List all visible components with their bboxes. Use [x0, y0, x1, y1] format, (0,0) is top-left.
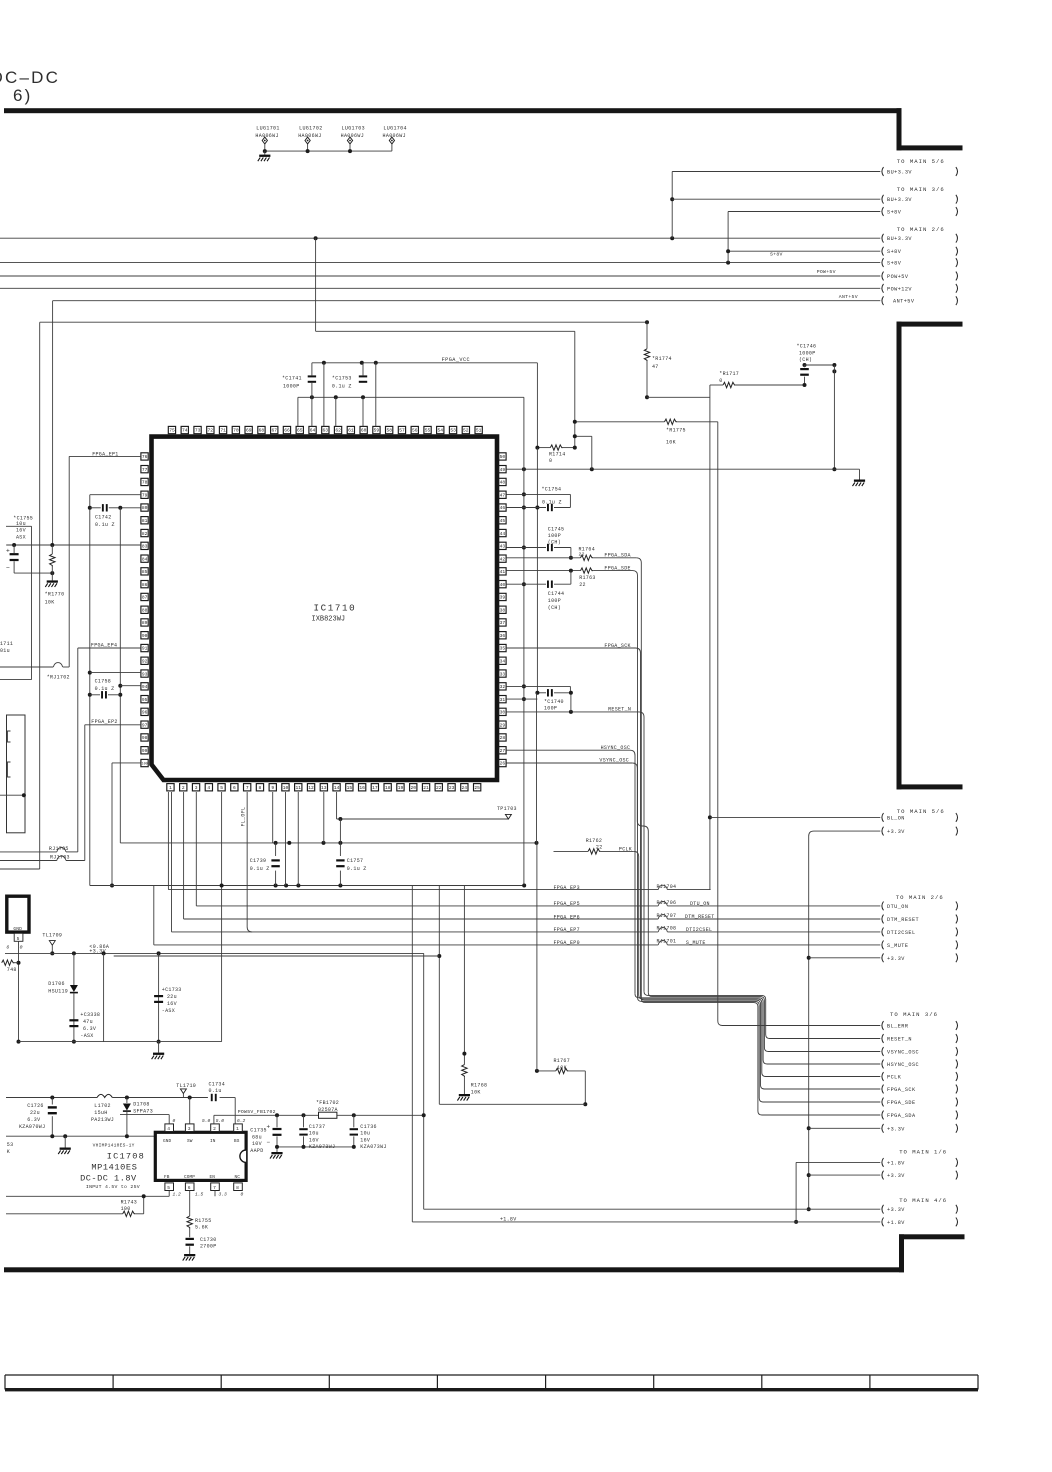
svg-text:TO MAIN 5/6: TO MAIN 5/6 — [897, 158, 945, 165]
connector S+8V to MAIN 2/6 b — [882, 258, 884, 267]
ground lug bus — [264, 151, 266, 155]
connector BU+3.3V to MAIN 3/6 — [882, 195, 884, 204]
svg-text:FPGA_EP6: FPGA_EP6 — [554, 914, 580, 920]
svg-text:-ASX: -ASX — [80, 1033, 93, 1039]
svg-text:748: 748 — [7, 967, 17, 973]
svg-text:+3.3V: +3.3V — [887, 829, 905, 835]
svg-text:35: 35 — [500, 646, 506, 652]
svg-text:11: 11 — [295, 785, 301, 791]
svg-text:ASX: ASX — [16, 535, 26, 541]
wire pin4 GND link — [120, 1114, 169, 1116]
connector FPGA_SDA out — [882, 1111, 884, 1120]
svg-text:RESET_N: RESET_N — [887, 1037, 912, 1043]
IC1710 bottom pins 1-25 — [167, 784, 174, 791]
wire FB net — [168, 1191, 170, 1197]
connector BU+3.3V to MAIN 2/6 — [882, 234, 884, 243]
svg-text:33: 33 — [500, 671, 506, 677]
svg-text:9: 9 — [271, 785, 274, 791]
svg-text:IN: IN — [210, 1139, 216, 1144]
wire C1726 top stub — [51, 1098, 53, 1105]
svg-text:49: 49 — [500, 467, 506, 473]
connector PCLK out — [882, 1072, 884, 1081]
wire pin31 stub — [506, 698, 537, 700]
svg-text:*C1754: *C1754 — [542, 486, 562, 492]
svg-text:+1.8V: +1.8V — [887, 1220, 905, 1226]
svg-text:(CH): (CH) — [548, 605, 561, 611]
svg-text:81: 81 — [142, 518, 148, 524]
svg-text:EN: EN — [210, 1175, 216, 1180]
svg-text:ANT+5V: ANT+5V — [839, 294, 858, 300]
wire BU+3.3V bus — [0, 237, 880, 239]
svg-text:D1708: D1708 — [133, 1102, 150, 1108]
svg-text:R1768: R1768 — [471, 1082, 488, 1088]
svg-text:R1755: R1755 — [195, 1218, 212, 1224]
wire +3.3V 2/6 stub — [809, 957, 881, 959]
svg-text:29: 29 — [500, 722, 506, 728]
svg-text:(CH): (CH) — [799, 357, 812, 363]
wire R1775 to BL_ERR drop — [717, 422, 719, 1021]
svg-text:POW+12V: POW+12V — [887, 286, 912, 292]
svg-text:100: 100 — [142, 763, 148, 767]
svg-text:10K: 10K — [666, 439, 676, 445]
svg-text:21: 21 — [423, 785, 429, 791]
svg-text:22: 22 — [596, 844, 603, 850]
connector BL_ERR — [882, 1021, 884, 1030]
svg-text:FPGA_SDA: FPGA_SDA — [887, 1113, 916, 1119]
svg-text:63: 63 — [323, 428, 329, 434]
svg-text:46: 46 — [500, 505, 506, 511]
svg-text:69: 69 — [246, 428, 252, 434]
svg-text:98: 98 — [142, 735, 148, 741]
wire cap bottoms row W4 — [277, 1146, 354, 1148]
svg-text:0.1u: 0.1u — [209, 1088, 222, 1094]
pin 5 of partial IC — [14, 933, 23, 941]
ground pin49 net — [859, 469, 861, 479]
wire lug common bus — [265, 150, 392, 152]
svg-text:DTM_RESET: DTM_RESET — [887, 917, 919, 923]
svg-text:POW+5V: POW+5V — [887, 274, 909, 280]
svg-text:7: 7 — [213, 1185, 216, 1191]
svg-text:5.0: 5.0 — [202, 1118, 211, 1124]
svg-text:36: 36 — [500, 633, 506, 639]
wire pin83 node C1755/R1770 — [6, 544, 141, 546]
svg-text:25: 25 — [474, 785, 480, 791]
svg-text:C1758: C1758 — [95, 679, 112, 685]
svg-text:15uH: 15uH — [94, 1110, 107, 1116]
svg-text:*C1741: *C1741 — [282, 375, 302, 381]
svg-text:IC1708: IC1708 — [107, 1152, 145, 1162]
svg-text:42: 42 — [500, 556, 506, 562]
svg-text:FL_OFL: FL_OFL — [241, 807, 247, 827]
svg-text:R1714: R1714 — [549, 452, 566, 458]
svg-text:0: 0 — [719, 378, 722, 384]
ground W2 — [64, 1136, 66, 1147]
svg-text:5: 5 — [167, 1185, 170, 1191]
wire under-IC bus B — [90, 885, 524, 887]
svg-text:3: 3 — [188, 1126, 191, 1132]
svg-text:90: 90 — [142, 633, 148, 639]
svg-text:51: 51 — [476, 428, 482, 434]
wire gnd collector row — [19, 1041, 222, 1043]
svg-text:*C1740: *C1740 — [544, 699, 564, 705]
svg-text:93: 93 — [142, 671, 148, 677]
svg-text:*C1753: *C1753 — [332, 375, 352, 381]
svg-text:20: 20 — [410, 785, 416, 791]
svg-text:61: 61 — [348, 428, 354, 434]
svg-text:4: 4 — [167, 1126, 170, 1132]
svg-text:BU+3.3V: BU+3.3V — [887, 236, 912, 242]
svg-text:82: 82 — [142, 531, 148, 537]
svg-text:0.1u Z: 0.1u Z — [250, 866, 270, 872]
svg-text:6: 6 — [188, 1185, 191, 1191]
svg-text:RJ1701: RJ1701 — [657, 938, 677, 944]
svg-text:−: − — [6, 565, 10, 572]
svg-text:HA006WJ: HA006WJ — [341, 133, 364, 139]
svg-text:18: 18 — [385, 785, 391, 791]
svg-text:86: 86 — [142, 582, 148, 588]
connector FPGA_SCK out — [882, 1085, 884, 1094]
svg-text:8: 8 — [259, 785, 262, 791]
svg-text:FPGA_SCK: FPGA_SCK — [887, 1087, 916, 1093]
svg-text:19: 19 — [398, 785, 404, 791]
svg-text:AAPD: AAPD — [250, 1148, 263, 1154]
svg-text:91: 91 — [142, 646, 148, 652]
svg-text:L1702: L1702 — [94, 1103, 111, 1109]
wire pin11 drop — [297, 792, 299, 886]
svg-text:R1767: R1767 — [554, 1058, 571, 1064]
wire R1774 feed line — [40, 321, 647, 323]
svg-text:HSYNC_OSC: HSYNC_OSC — [887, 1062, 919, 1068]
svg-text:DC–DC: DC–DC — [0, 68, 60, 87]
connector HSYNC_OSC out — [882, 1060, 884, 1069]
svg-text:27: 27 — [500, 748, 506, 754]
svg-text:50: 50 — [500, 454, 506, 460]
svg-text:HA006WJ: HA006WJ — [383, 133, 406, 139]
svg-text:MP1410ES: MP1410ES — [91, 1162, 137, 1172]
wire left drop to RJ area — [39, 322, 41, 869]
svg-text:45: 45 — [500, 518, 506, 524]
svg-text:SFPA73: SFPA73 — [133, 1109, 153, 1115]
svg-text:100P: 100P — [544, 705, 557, 711]
wire return riser — [438, 886, 440, 1105]
svg-text:41: 41 — [500, 569, 506, 575]
svg-text:10: 10 — [283, 785, 289, 791]
svg-text:10K: 10K — [471, 1089, 481, 1095]
svg-text:54: 54 — [438, 428, 444, 434]
svg-text:0.1u Z: 0.1u Z — [95, 522, 115, 528]
wire R1717 to BL_ON drop — [709, 385, 711, 890]
svg-text:1711: 1711 — [0, 641, 13, 647]
IC1708 top pin 2 — [211, 1124, 220, 1132]
wire BL_ON — [710, 816, 880, 818]
svg-text:68u: 68u — [252, 1134, 262, 1140]
svg-text:TO MAIN 1/6: TO MAIN 1/6 — [899, 1148, 947, 1155]
svg-text:10K: 10K — [45, 600, 55, 606]
wire +3.3V row to MAIN 4/6 — [424, 1208, 881, 1210]
svg-text:31: 31 — [500, 697, 506, 703]
wire W2 gnd row — [6, 1135, 155, 1137]
svg-text:1.5: 1.5 — [195, 1192, 204, 1198]
wire under-IC bus A — [120, 842, 536, 844]
svg-text:S_MUTE: S_MUTE — [887, 943, 908, 949]
wire pin5 stub — [18, 941, 20, 1041]
svg-text:5: 5 — [220, 785, 223, 791]
svg-text:+3.3V: +3.3V — [887, 956, 905, 962]
wire R1774 bottom link — [647, 396, 710, 398]
svg-text:R1763: R1763 — [579, 575, 596, 581]
svg-text:94: 94 — [142, 684, 148, 690]
connector RESET_N out — [882, 1034, 884, 1043]
ground R1770 — [51, 573, 53, 580]
svg-text:6: 6 — [233, 785, 236, 791]
svg-text:C1726: C1726 — [27, 1103, 44, 1109]
wire return row — [439, 1103, 585, 1105]
connector +3.3V to MAIN 2/6 — [882, 953, 884, 962]
svg-text:LUG1702: LUG1702 — [299, 126, 322, 132]
wire pin5 drop — [221, 792, 223, 1042]
wire BU+3.3V branch up to MAIN5/6 and 3/6 — [671, 172, 673, 239]
svg-text:BL_ERR: BL_ERR — [887, 1024, 908, 1030]
svg-text:BL_ON: BL_ON — [887, 815, 905, 821]
svg-text:84: 84 — [142, 556, 148, 562]
svg-text:6.3V: 6.3V — [83, 1026, 96, 1032]
wire into partial box — [0, 794, 24, 796]
wire drop C1746 to pin49 net — [833, 365, 835, 469]
svg-text:88: 88 — [142, 607, 148, 613]
svg-text:12: 12 — [308, 785, 314, 791]
svg-text:60: 60 — [361, 428, 367, 434]
wire S+8V branch to MAIN3/6 — [728, 250, 880, 252]
connector FPGA_SDE out — [882, 1098, 884, 1107]
wire gnd vertical down to bus B — [523, 884, 525, 887]
wire pin10 drop — [284, 792, 286, 886]
svg-text:6.2: 6.2 — [237, 1118, 246, 1124]
svg-text:C1744: C1744 — [548, 591, 565, 597]
IC1708 MP1410ES body — [155, 1132, 246, 1180]
svg-text:40: 40 — [500, 582, 506, 588]
svg-text:TL1709: TL1709 — [42, 933, 62, 939]
wire ANT+5V drop to C1755 node — [52, 301, 54, 545]
svg-text:TO MAIN 2/6: TO MAIN 2/6 — [897, 226, 945, 233]
svg-text:ANT+5V: ANT+5V — [893, 299, 915, 305]
connector +3.3V to MAIN 4/6 — [882, 1205, 884, 1214]
connector DTM_RESET — [882, 915, 884, 924]
svg-text:53: 53 — [450, 428, 456, 434]
svg-text:INPUT 4.5V to 25V: INPUT 4.5V to 25V — [86, 1184, 140, 1190]
svg-text:52: 52 — [463, 428, 469, 434]
svg-text:RJ1708: RJ1708 — [657, 925, 677, 931]
svg-text:8: 8 — [236, 1185, 239, 1191]
GND partial IC box left edge — [7, 896, 29, 932]
wire pin100 route under IC — [112, 762, 141, 764]
resistor R1748 partial — [2, 960, 15, 965]
svg-text:34: 34 — [500, 659, 506, 665]
wire FL_OFL pull vertical — [536, 843, 538, 1071]
svg-text:95: 95 — [142, 697, 148, 703]
svg-text:FPGA_EP4: FPGA_EP4 — [91, 642, 117, 648]
svg-text:58: 58 — [386, 428, 392, 434]
svg-text:16V: 16V — [167, 1001, 177, 1007]
connector S+8V to MAIN 3/6 — [882, 207, 884, 216]
wire SW node W1 — [6, 1097, 97, 1099]
svg-text:37: 37 — [500, 620, 506, 626]
svg-text:GND: GND — [163, 1139, 171, 1144]
svg-text:13: 13 — [321, 785, 327, 791]
svg-text:HSU119: HSU119 — [48, 988, 68, 994]
wire +3.3V riser from rail — [423, 953, 425, 1209]
wire C1746 top link — [805, 364, 835, 366]
svg-text:BU+3.3V: BU+3.3V — [887, 170, 912, 176]
svg-text:80: 80 — [142, 505, 148, 511]
svg-text:5.0: 5.0 — [216, 1118, 225, 1124]
svg-text:DC-DC 1.8V: DC-DC 1.8V — [80, 1174, 137, 1184]
svg-text:+: + — [6, 548, 10, 555]
wire pin14 TP1703 branch — [336, 792, 338, 819]
svg-text:HA006WJ: HA006WJ — [298, 133, 321, 139]
wire R1767 to return — [584, 1071, 586, 1104]
wire secondary rail — [114, 955, 440, 957]
junction dots pin46 pin31 rows — [535, 506, 539, 510]
svg-text:64: 64 — [310, 428, 316, 434]
wire vcc vertical down to bus A — [536, 693, 538, 843]
svg-text:0: 0 — [549, 458, 552, 464]
wire mid riser — [103, 953, 105, 1041]
svg-text:43: 43 — [500, 544, 506, 550]
svg-text:0.1u Z: 0.1u Z — [332, 383, 352, 389]
svg-text:100P: 100P — [548, 533, 561, 539]
svg-text:6): 6) — [13, 86, 33, 105]
svg-text:*R1775: *R1775 — [666, 428, 686, 434]
svg-text:COMP: COMP — [184, 1175, 195, 1180]
svg-text:96: 96 — [142, 710, 148, 716]
svg-text:SW: SW — [187, 1139, 193, 1144]
wire S+8V stub MAIN3/6 — [728, 211, 880, 213]
wire BU+3.3V branch down-over to FPGA_VCC area — [315, 238, 317, 331]
svg-text:66: 66 — [284, 428, 290, 434]
svg-text:POW+5V: POW+5V — [817, 269, 836, 275]
svg-text:100: 100 — [121, 1206, 131, 1212]
svg-text:85: 85 — [142, 569, 148, 575]
svg-text:75: 75 — [169, 428, 175, 434]
wire gnd rail above IC — [298, 396, 524, 398]
svg-text:*C1746: *C1746 — [797, 344, 817, 350]
wire left loop — [0, 679, 32, 681]
svg-text:D1706: D1706 — [48, 981, 65, 987]
svg-text:R1762: R1762 — [586, 838, 603, 844]
svg-text:+3.3V: +3.3V — [887, 1173, 905, 1179]
svg-text:71: 71 — [220, 428, 226, 434]
IC1710 top pins 75-51 — [168, 426, 175, 433]
svg-text:44: 44 — [500, 531, 506, 537]
svg-text:15: 15 — [347, 785, 353, 791]
svg-text:C1757: C1757 — [347, 858, 364, 864]
svg-text:83: 83 — [142, 544, 148, 550]
ground C1730 — [184, 1254, 195, 1256]
connector DTI2CSEL — [882, 928, 884, 937]
svg-text:1: 1 — [236, 1126, 239, 1132]
svg-text:3: 3 — [195, 785, 198, 791]
svg-text:16V: 16V — [16, 528, 26, 534]
svg-text:TP1703: TP1703 — [497, 806, 517, 812]
svg-text:FPGA_EP2: FPGA_EP2 — [91, 719, 117, 725]
svg-text:1.2: 1.2 — [173, 1192, 182, 1198]
svg-text:*R1770: *R1770 — [45, 592, 65, 598]
connector DTU_ON — [882, 902, 884, 911]
svg-text:KZA073WJ: KZA073WJ — [360, 1144, 386, 1150]
svg-text:6.3V: 6.3V — [27, 1117, 40, 1123]
svg-text:10u: 10u — [309, 1131, 319, 1137]
svg-text:10V: 10V — [252, 1141, 262, 1147]
wire pin3 SW stub — [189, 1098, 191, 1124]
connector VSYNC_OSC out — [882, 1047, 884, 1056]
svg-text:C1745: C1745 — [548, 527, 565, 533]
svg-text:*R1717: *R1717 — [719, 371, 739, 377]
svg-text:22u: 22u — [30, 1110, 40, 1116]
svg-text:16: 16 — [359, 785, 365, 791]
wire vcc vertical right of IC — [536, 448, 538, 693]
wire +3.3V 3/6 stub — [809, 1127, 881, 1129]
connector +3.3V to MAIN 3/6 — [882, 1124, 884, 1133]
svg-text:S+8V: S+8V — [887, 249, 902, 255]
wire FPGA_SDA drop — [636, 558, 641, 999]
svg-text:LUG1703: LUG1703 — [342, 126, 365, 132]
svg-text:TO MAIN 5/6: TO MAIN 5/6 — [897, 808, 945, 815]
connector POW+12V to MAIN 2/6 — [882, 284, 884, 293]
svg-text:70: 70 — [233, 428, 239, 434]
svg-text:67: 67 — [271, 428, 277, 434]
wire pin49 net — [506, 468, 859, 470]
svg-text:79: 79 — [142, 492, 148, 498]
svg-text:1000P: 1000P — [283, 383, 300, 389]
svg-text:*RJ1702: *RJ1702 — [47, 674, 70, 680]
wire +1.8V riser — [411, 886, 413, 1222]
schematic border frame — [4, 108, 902, 113]
svg-text:GND: GND — [13, 926, 22, 932]
svg-text:56: 56 — [412, 428, 418, 434]
svg-text:0: 0 — [173, 1118, 176, 1124]
svg-text:76: 76 — [142, 454, 148, 460]
svg-text:+3.3V: +3.3V — [887, 1126, 905, 1132]
svg-text:26: 26 — [500, 761, 506, 767]
svg-text:77: 77 — [142, 467, 148, 473]
svg-text:0: 0 — [241, 1192, 244, 1198]
svg-text:5.6K: 5.6K — [195, 1225, 208, 1231]
svg-text:KZA070WJ: KZA070WJ — [19, 1124, 45, 1130]
wire FPGA_SDE drop — [633, 571, 638, 998]
wire EN stub — [214, 1191, 216, 1197]
svg-text:99: 99 — [142, 748, 148, 754]
svg-text:C1737: C1737 — [309, 1124, 326, 1130]
svg-text:57: 57 — [399, 428, 405, 434]
svg-text:DTU_ON: DTU_ON — [887, 904, 908, 910]
svg-text:74: 74 — [182, 428, 188, 434]
svg-text:0.1u Z: 0.1u Z — [347, 866, 367, 872]
wire +3.3V main vertical — [809, 831, 881, 1209]
wire FPGA_VCC rail drop right — [536, 363, 538, 448]
svg-text:23: 23 — [449, 785, 455, 791]
svg-text:62: 62 — [335, 428, 341, 434]
svg-text:24: 24 — [462, 785, 468, 791]
svg-text:2700P: 2700P — [200, 1244, 217, 1250]
svg-text:68: 68 — [259, 428, 265, 434]
wire bus drop to left edge — [0, 868, 40, 870]
svg-text:47u: 47u — [83, 1019, 93, 1025]
connector +1.8V to MAIN 1/6 — [882, 1158, 884, 1167]
svg-text:PCLK: PCLK — [887, 1075, 902, 1081]
svg-text:LUG1704: LUG1704 — [383, 126, 406, 132]
svg-text:39: 39 — [500, 595, 506, 601]
svg-text:92: 92 — [142, 659, 148, 665]
